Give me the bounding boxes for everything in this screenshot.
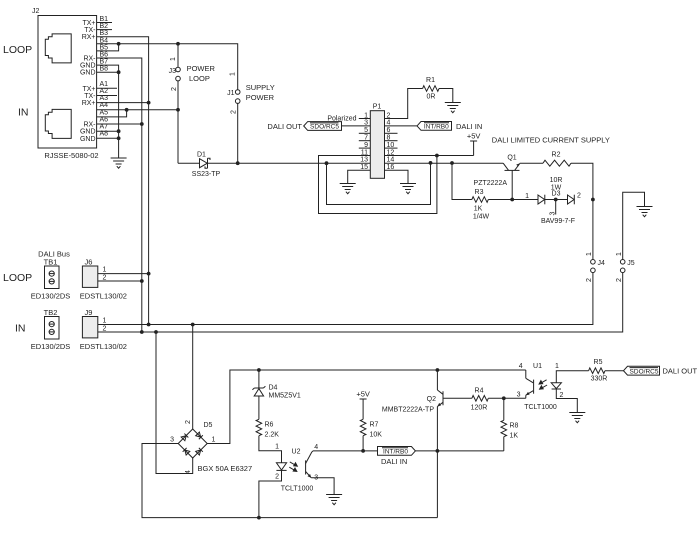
- svg-text:TX-: TX-: [84, 27, 96, 34]
- node R7 junction: [361, 449, 365, 453]
- svg-text:B1: B1: [100, 16, 109, 23]
- node pin14 junction: [429, 161, 433, 165]
- svg-text:A2: A2: [100, 88, 109, 95]
- svg-text:J6: J6: [85, 258, 93, 267]
- optocoupler U1 TCLT1000: [517, 363, 564, 411]
- svg-text:B3: B3: [100, 30, 109, 37]
- wire P1 pin8 stub: [385, 140, 398, 142]
- svg-text:1K: 1K: [474, 206, 483, 213]
- svg-text:R3: R3: [475, 189, 484, 196]
- wire P1 pin10 stub: [385, 147, 398, 149]
- transistor Q1 PZT2222A: [474, 155, 520, 200]
- svg-text:POWER: POWER: [246, 93, 275, 102]
- connector J2 RJSSE-5080-02: [3, 8, 108, 160]
- resistor R5 330R: [589, 359, 608, 383]
- node A6 junction: [140, 122, 144, 126]
- svg-text:DALI OUT: DALI OUT: [663, 367, 698, 376]
- svg-text:4: 4: [185, 470, 192, 474]
- wire J9.2 row: [98, 331, 142, 333]
- ground at U2: [326, 495, 342, 505]
- optocoupler U2 TCLT1000: [275, 444, 318, 493]
- resistor R8 1K: [501, 398, 519, 451]
- node J9.2 junction RX- net end: [140, 330, 144, 334]
- wire D5 pin3 to bottom rail: [142, 444, 437, 518]
- svg-text:J9: J9: [85, 308, 93, 317]
- svg-text:BGX 50A E6327: BGX 50A E6327: [198, 464, 253, 473]
- svg-text:TCLT1000: TCLT1000: [524, 404, 557, 411]
- wire A7 to GND net: [97, 130, 119, 132]
- wire J2 pin B1 stub: [97, 22, 112, 24]
- svg-text:A6: A6: [100, 117, 109, 124]
- wire J9.1 row: [98, 324, 149, 326]
- node D5 pin2 drop junction: [191, 323, 195, 327]
- svg-text:B8: B8: [100, 66, 109, 73]
- wire P1 pin6 stub: [385, 132, 398, 134]
- svg-text:3: 3: [170, 437, 174, 444]
- svg-text:1/4W: 1/4W: [473, 214, 490, 221]
- svg-text:R7: R7: [370, 422, 379, 429]
- wire net RX+ loop : B3 right then down to A3 and J6.1 and J9.1: [97, 37, 149, 325]
- ground at U1: [569, 413, 585, 423]
- svg-text:A3: A3: [100, 95, 109, 102]
- node B4 junction: [117, 42, 121, 46]
- svg-text:B5: B5: [100, 44, 109, 51]
- svg-text:RX-: RX-: [83, 56, 96, 63]
- wire U2 pin2 to bottom rail: [259, 470, 282, 517]
- wire J1.2 down to D1 row: [237, 103, 239, 163]
- svg-text:PZT2222A: PZT2222A: [474, 180, 508, 187]
- tag INT/RB0 (DALI IN top): [417, 122, 482, 131]
- svg-text:10R: 10R: [550, 177, 563, 184]
- connector J5: [616, 252, 635, 282]
- svg-text:LOOP: LOOP: [3, 272, 32, 284]
- svg-text:TX+: TX+: [82, 86, 95, 93]
- svg-text:1: 1: [616, 252, 623, 256]
- svg-text:2: 2: [103, 274, 107, 281]
- tag INT/RB0 (DALI IN bottom): [378, 447, 416, 467]
- wire A4/A5 tie to J3 vertical: [97, 110, 127, 117]
- wire P1 pin9 stub: [359, 147, 371, 149]
- wire P1 pin14 row to Q1 base: [385, 162, 504, 164]
- svg-text:U2: U2: [292, 449, 301, 456]
- svg-text:DALI IN: DALI IN: [456, 122, 482, 131]
- wire D5 pin2 from J9.1 row down: [192, 325, 194, 430]
- wire R2 right down to D3 cathode node: [571, 163, 593, 199]
- svg-text:SUPPLY: SUPPLY: [246, 83, 275, 92]
- svg-text:BAV99-7-F: BAV99-7-F: [541, 218, 575, 225]
- wire D5 pin1 up to top rail of lower section: [207, 370, 526, 444]
- svg-text:POWER: POWER: [187, 64, 216, 73]
- wire U1 pin2 to ground: [556, 389, 577, 413]
- wire A6 to RX- net: [97, 123, 142, 125]
- connector J3 POWER LOOP: [169, 57, 216, 91]
- wire D1 anode row from J3.2: [178, 162, 200, 164]
- wire P1 pin2 up to R1: [385, 89, 423, 119]
- svg-text:2: 2: [185, 420, 192, 424]
- svg-text:330R: 330R: [591, 376, 608, 383]
- wire A3 to RX+ net: [97, 102, 149, 104]
- ground below J2: [111, 158, 127, 168]
- svg-text:LOOP: LOOP: [3, 44, 32, 56]
- ground below P1 left: [340, 184, 356, 194]
- node A4 junction: [125, 108, 129, 112]
- wire J3.1 to rail: [177, 44, 179, 67]
- svg-text:2: 2: [577, 193, 581, 200]
- connector P1 header 16-pin: [360, 104, 394, 179]
- svg-text:J5: J5: [627, 260, 635, 267]
- tag SDO/RC5 (DALI OUT bottom): [624, 366, 698, 375]
- wire Q1 emitter to R2: [520, 162, 543, 164]
- wire net RX- : B6 right, down to A6, J6.2, J9.2: [97, 58, 142, 332]
- svg-text:MMBT2222A-TP: MMBT2222A-TP: [382, 407, 434, 414]
- wire R1 to ground: [439, 89, 453, 103]
- svg-text:P1: P1: [373, 104, 382, 111]
- node D4 junction on rail: [257, 368, 261, 372]
- wire D1 cathode row to P1 pin13: [208, 162, 371, 164]
- diode D3 BAV99-7-F dual: [525, 191, 581, 226]
- node J9.1 junction RX+ net end: [147, 323, 151, 327]
- node A4 to J3 net junction: [176, 108, 180, 112]
- svg-text:INT/RB0: INT/RB0: [424, 124, 449, 131]
- svg-text:RX+: RX+: [82, 34, 96, 41]
- wire P1 pin15 to ground: [348, 170, 371, 183]
- svg-text:R2: R2: [552, 152, 561, 159]
- resistor R6 2.2K: [256, 419, 279, 438]
- svg-text:TCLT1000: TCLT1000: [281, 486, 314, 493]
- svg-text:1: 1: [525, 193, 529, 200]
- svg-text:EDSTL130/02: EDSTL130/02: [80, 292, 127, 301]
- svg-text:ED130/2DS: ED130/2DS: [31, 342, 71, 351]
- svg-text:1: 1: [212, 437, 216, 444]
- node pin13 loop junction: [325, 161, 329, 165]
- connector J1 SUPPLY POWER: [227, 72, 275, 114]
- diode D4 MM5Z5V1 zener: [252, 370, 300, 419]
- svg-text:0R: 0R: [427, 94, 436, 101]
- wire P1 pin11 stub and loop to pin12: [319, 156, 437, 214]
- svg-text:1: 1: [555, 363, 559, 370]
- svg-text:TX+: TX+: [82, 20, 95, 27]
- svg-text:EDSTL130/02: EDSTL130/02: [80, 342, 127, 351]
- svg-text:3: 3: [550, 212, 557, 216]
- wire J2 pin A2 stub: [97, 95, 117, 97]
- resistor R2 10R 1W: [543, 152, 571, 192]
- wire J2 pin A1 stub: [97, 87, 117, 89]
- node D3 center tap: [554, 198, 558, 202]
- svg-text:TX-: TX-: [84, 93, 96, 100]
- node J1.2 junction on D1 row: [236, 161, 240, 165]
- svg-text:2: 2: [231, 110, 238, 114]
- terminal block TB1 ED130/2DS: [31, 258, 71, 301]
- wire J5.2 down to J9 pin2 row: [142, 273, 623, 332]
- svg-text:1: 1: [275, 444, 279, 451]
- svg-text:B7: B7: [100, 59, 109, 66]
- wire P1 pin12 row to +5V: [437, 155, 474, 157]
- svg-text:GND: GND: [80, 63, 96, 70]
- svg-text:+5V: +5V: [467, 132, 481, 141]
- node D3 pin2 / R2 / J4 junction: [591, 198, 595, 202]
- svg-text:4: 4: [314, 444, 318, 451]
- diode D1 SS23-TP: [192, 152, 221, 179]
- wire U2 pin4 collector to INT/RB0 row: [312, 451, 313, 452]
- wire P1 pin16 to ground: [385, 170, 409, 183]
- wire P1 pin4 to INT/RB0 tag: [385, 125, 418, 127]
- svg-text:ED130/2DS: ED130/2DS: [31, 292, 71, 301]
- resistor R7 10K: [360, 419, 382, 438]
- svg-text:MM5Z5V1: MM5Z5V1: [269, 393, 301, 400]
- svg-text:2.2K: 2.2K: [265, 432, 280, 439]
- svg-text:B2: B2: [100, 23, 109, 30]
- svg-text:2: 2: [103, 325, 107, 332]
- wire Q2 emitter node down to bottom rail: [436, 451, 438, 518]
- wire J4.2 down to J9 pin1 row: [149, 273, 593, 325]
- svg-text:D3: D3: [552, 191, 561, 198]
- node pin12 junction: [435, 154, 439, 158]
- connector J9 EDSTL130/02: [80, 308, 127, 351]
- svg-text:1: 1: [103, 318, 107, 325]
- connector J4: [586, 252, 605, 282]
- svg-text:J2: J2: [32, 8, 40, 15]
- svg-text:J1: J1: [227, 90, 235, 97]
- node B8 junction: [117, 70, 121, 74]
- svg-text:A8: A8: [100, 131, 109, 138]
- svg-text:DALI OUT: DALI OUT: [267, 122, 302, 131]
- bridge rectifier D5 BGX 50A E6327: [170, 420, 252, 474]
- svg-text:2: 2: [275, 474, 279, 481]
- svg-text:A5: A5: [100, 109, 109, 116]
- wire D3 node down to J4.1: [592, 200, 594, 260]
- node Q2 emitter junction: [436, 449, 440, 453]
- svg-text:2: 2: [586, 278, 593, 282]
- terminal block TB2 ED130/2DS: [31, 308, 71, 351]
- wire U1 pin1 up to R5 row: [556, 371, 588, 383]
- wire P1 pin13 loop to pin14: [327, 163, 431, 205]
- wire Q2 base to R4: [443, 397, 472, 399]
- svg-text:J4: J4: [598, 260, 606, 267]
- node Q1 collector / R3 / D3 junction: [510, 198, 514, 202]
- node R8 top junction: [502, 396, 506, 400]
- ground below P1 right: [400, 184, 416, 194]
- transistor Q2 MMBT2222A-TP: [382, 370, 443, 451]
- svg-text:D5: D5: [204, 422, 213, 429]
- svg-text:DALI LIMITED CURRENT SUPPLY: DALI LIMITED CURRENT SUPPLY: [492, 136, 610, 145]
- node R3 drop junction: [450, 161, 454, 165]
- svg-text:3: 3: [517, 392, 521, 399]
- svg-text:2: 2: [616, 278, 623, 282]
- node J6.1 junction: [147, 272, 151, 276]
- svg-text:R8: R8: [510, 423, 519, 430]
- svg-text:Q1: Q1: [507, 155, 516, 162]
- wire P1 pin5 stub: [359, 132, 371, 134]
- svg-text:B6: B6: [100, 52, 109, 59]
- svg-text:RX-: RX-: [83, 122, 96, 129]
- wire P1 pin7 stub: [359, 140, 371, 142]
- node U2 pin2 on bottom rail: [257, 516, 261, 520]
- svg-text:U1: U1: [533, 363, 542, 370]
- ground at R1: [445, 103, 461, 113]
- svg-text:GND: GND: [80, 136, 96, 143]
- svg-text:IN: IN: [18, 107, 29, 119]
- svg-text:1: 1: [103, 267, 107, 274]
- wire R7 to row: [362, 436, 364, 451]
- wire J5.1 up and right to ground: [623, 192, 645, 259]
- svg-text:SS23-TP: SS23-TP: [192, 171, 221, 178]
- node Q2 collector junction on rail: [436, 368, 440, 372]
- connector J6 EDSTL130/02: [80, 258, 127, 301]
- wire J6.1 to RX+ net: [98, 273, 149, 275]
- svg-text:R5: R5: [594, 359, 603, 366]
- wire A8 to GND net: [97, 137, 119, 139]
- ground at J5: [637, 207, 653, 217]
- svg-text:2: 2: [560, 392, 564, 399]
- wire J6.2 to RX- net: [98, 280, 142, 282]
- node J3.1 rail junction: [176, 42, 180, 46]
- svg-text:1: 1: [586, 252, 593, 256]
- svg-text:SDO/RC5: SDO/RC5: [630, 368, 659, 375]
- svg-text:1: 1: [230, 72, 237, 76]
- node J9.2 drop to bridge junction: [154, 330, 158, 334]
- svg-text:RX+: RX+: [82, 100, 96, 107]
- wire P1 pin3 to SDO/RC5 tag: [342, 125, 371, 127]
- node A7 junction: [117, 129, 121, 133]
- wire J2 GND B7-B8 down to ground: [97, 65, 119, 72]
- wire net B4/B5 to power rail and J1.1: [97, 44, 119, 51]
- wire R3 to Q1 collector node: [488, 199, 538, 201]
- svg-text:R6: R6: [265, 422, 274, 429]
- svg-text:GND: GND: [80, 70, 96, 77]
- svg-text:13: 13: [360, 157, 368, 164]
- svg-text:LOOP: LOOP: [189, 74, 210, 83]
- svg-text:A1: A1: [100, 81, 109, 88]
- tag SDO/RC5 (DALI OUT): [267, 122, 341, 131]
- svg-text:IN: IN: [15, 323, 26, 335]
- svg-text:+5V: +5V: [356, 390, 370, 399]
- svg-text:B4: B4: [100, 37, 109, 44]
- supply +5V at R7: [356, 390, 370, 420]
- wire J3.2 down to D1 row: [177, 81, 179, 163]
- resistor R4 120R: [471, 388, 489, 412]
- resistor R1 0R: [423, 77, 439, 101]
- wire from pin14 row down to R3: [452, 163, 472, 200]
- wire R6 to U2 LED anode: [259, 436, 282, 463]
- resistor R3 1K 1/4W: [472, 189, 490, 221]
- svg-text:TB2: TB2: [44, 308, 58, 317]
- svg-text:Q2: Q2: [427, 396, 436, 403]
- supply +5V at P1 pin12: [467, 132, 481, 156]
- svg-text:D1: D1: [197, 152, 206, 159]
- svg-text:TB1: TB1: [44, 258, 58, 267]
- wire J2 pin B2 stub: [97, 29, 112, 31]
- wire U2 pin3 emitter to ground: [311, 478, 334, 495]
- svg-text:DALI IN: DALI IN: [381, 457, 407, 466]
- svg-text:J3: J3: [169, 68, 177, 75]
- svg-text:2: 2: [171, 87, 178, 91]
- svg-text:SDO/RC5: SDO/RC5: [310, 124, 339, 131]
- svg-text:INT/RB0: INT/RB0: [383, 449, 408, 456]
- node J6.2 junction: [140, 279, 144, 283]
- node A3 junction: [147, 101, 151, 105]
- wire R5 to SDO/RC5 tag: [605, 370, 624, 372]
- svg-text:A7: A7: [100, 124, 109, 131]
- svg-text:10K: 10K: [370, 432, 383, 439]
- svg-text:120R: 120R: [471, 405, 488, 412]
- svg-text:A4: A4: [100, 102, 109, 109]
- svg-text:D4: D4: [269, 385, 278, 392]
- svg-text:R4: R4: [475, 388, 484, 395]
- svg-text:4: 4: [519, 363, 523, 370]
- svg-text:1K: 1K: [510, 433, 519, 440]
- svg-text:R1: R1: [426, 77, 435, 84]
- svg-text:14: 14: [387, 157, 395, 164]
- svg-text:GND: GND: [80, 129, 96, 136]
- svg-text:1: 1: [170, 57, 177, 61]
- wire D5 pin4 from J9.2 row down and right: [156, 332, 193, 474]
- wire R4 to U1 pin3 node: [488, 397, 526, 399]
- svg-text:RJSSE-5080-02: RJSSE-5080-02: [44, 151, 98, 160]
- node A8 junction: [117, 136, 121, 140]
